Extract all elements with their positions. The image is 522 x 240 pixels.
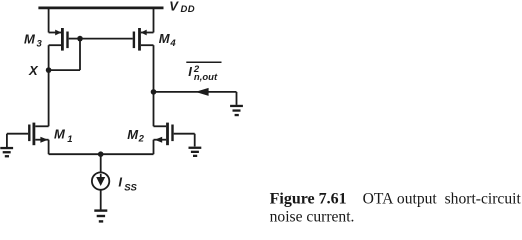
wire output ground vertical bbox=[236, 92, 238, 105]
wire M3 gate lead bbox=[69, 38, 80, 40]
wire right column M4 drain to M2 drain bbox=[153, 45, 155, 126]
wire M2 source down bbox=[153, 140, 155, 155]
wire M4 source to VDD bbox=[153, 8, 155, 33]
wire M1 drain lead bbox=[35, 125, 48, 127]
wire M2 source lead bbox=[154, 139, 167, 141]
wire M3 source to VDD bbox=[48, 8, 50, 33]
svg-text:DD: DD bbox=[181, 4, 196, 15]
wire M3 drain lead bbox=[49, 44, 61, 46]
wire gate bus M3 to M4 bbox=[80, 38, 133, 40]
transistor M4 gate bar bbox=[133, 32, 135, 49]
svg-text:V: V bbox=[169, 0, 179, 13]
ground symbol below ISS bbox=[94, 209, 107, 211]
wire M1 gate ground vertical bbox=[6, 134, 8, 147]
svg-text:n,out: n,out bbox=[194, 72, 218, 83]
wire diode connection horizontal to node X bbox=[49, 69, 80, 71]
svg-text:M: M bbox=[54, 127, 66, 142]
svg-text:OTA: OTA bbox=[363, 190, 395, 207]
svg-text:1: 1 bbox=[67, 134, 72, 145]
svg-text:Figure 7.61: Figure 7.61 bbox=[270, 190, 347, 207]
wire M1 gate lead bbox=[7, 133, 28, 135]
transistor M3 channel bar bbox=[61, 28, 64, 51]
svg-text:noise current.: noise current. bbox=[270, 209, 355, 226]
label noise current In,out squared with overline bbox=[186, 61, 221, 63]
wire diode connection vertical bbox=[79, 39, 81, 71]
transistor M2 gate bar bbox=[171, 125, 173, 142]
svg-text:4: 4 bbox=[169, 38, 176, 49]
svg-text:output: output bbox=[397, 190, 438, 207]
svg-text:M: M bbox=[24, 32, 36, 47]
wire M4 source lead bbox=[141, 32, 154, 34]
svg-text:2: 2 bbox=[138, 133, 145, 144]
wire tail to current source bbox=[100, 154, 102, 172]
transistor M2 source arrow (NMOS) bbox=[155, 137, 163, 143]
svg-text:I: I bbox=[118, 175, 122, 190]
transistor M3 gate bar bbox=[66, 32, 68, 49]
svg-text:short-circuit: short-circuit bbox=[445, 190, 522, 207]
wire current source to ground bbox=[100, 190, 102, 209]
transistor M4 channel bar bbox=[138, 28, 141, 51]
VDD rail bbox=[38, 7, 163, 10]
wire output node to ground bbox=[154, 91, 237, 93]
current source ISS arrow bbox=[96, 174, 105, 186]
wire M4 drain lead bbox=[141, 44, 154, 46]
wire M2 drain lead bbox=[154, 125, 167, 127]
ground symbol at output noise source bbox=[230, 105, 243, 107]
svg-text:M: M bbox=[159, 31, 171, 46]
transistor M1 gate bar bbox=[28, 125, 30, 142]
transistor M2 channel bar bbox=[166, 123, 169, 146]
wire tail rail bbox=[49, 153, 154, 155]
wire M2 gate ground vertical bbox=[194, 134, 196, 147]
wire M1 source down bbox=[48, 140, 50, 155]
transistor M3 source arrow (PMOS) bbox=[55, 30, 61, 36]
wire M1 source lead bbox=[35, 139, 48, 141]
wire M2 gate lead bbox=[174, 133, 195, 135]
current source ISS circle bbox=[92, 172, 109, 189]
node output dot bbox=[151, 89, 157, 95]
node dot gate bus / diode connection bbox=[77, 36, 83, 42]
node X dot bbox=[46, 67, 52, 73]
svg-text:I: I bbox=[188, 64, 192, 79]
transistor M4 source arrow (PMOS) bbox=[141, 30, 147, 36]
svg-text:X: X bbox=[28, 63, 39, 78]
transistor M1 channel bar bbox=[33, 123, 36, 146]
svg-text:SS: SS bbox=[124, 182, 137, 193]
arrow noise current into output node bbox=[195, 88, 208, 96]
node tail dot bbox=[98, 151, 104, 157]
ground symbol at M1 gate bbox=[0, 147, 13, 149]
svg-text:M: M bbox=[127, 127, 139, 142]
wire left column M3 drain to M1 drain bbox=[48, 45, 50, 126]
wire M3 source lead bbox=[49, 32, 61, 34]
svg-text:3: 3 bbox=[37, 38, 43, 49]
ground symbol at M2 gate bbox=[189, 147, 202, 149]
transistor M1 source arrow (NMOS) bbox=[40, 137, 48, 143]
